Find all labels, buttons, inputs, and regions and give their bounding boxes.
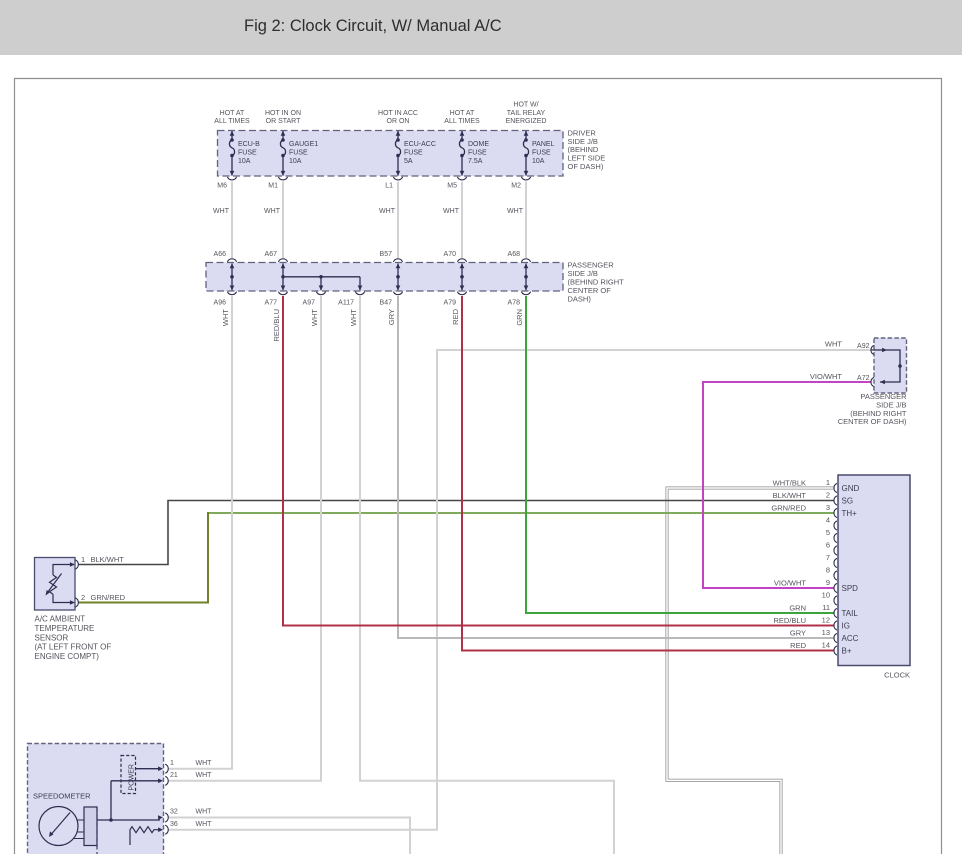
svg-text:RED/BLU: RED/BLU — [272, 309, 281, 342]
svg-text:WHT: WHT — [310, 309, 319, 326]
svg-text:WHT: WHT — [196, 809, 213, 816]
svg-text:GAUGE1: GAUGE1 — [289, 141, 318, 148]
svg-text:RED: RED — [790, 641, 806, 650]
svg-text:8: 8 — [826, 565, 830, 574]
svg-text:GRN: GRN — [789, 603, 806, 612]
svg-text:A92: A92 — [857, 343, 870, 350]
svg-text:TH+: TH+ — [842, 509, 858, 518]
svg-text:OR ON: OR ON — [387, 118, 410, 125]
svg-text:6: 6 — [826, 540, 830, 549]
svg-text:FUSE: FUSE — [532, 150, 551, 157]
svg-text:7.5A: 7.5A — [468, 158, 483, 165]
svg-text:WHT: WHT — [196, 772, 213, 779]
svg-text:TEMPERATURE: TEMPERATURE — [35, 624, 95, 633]
svg-text:13: 13 — [822, 628, 830, 637]
svg-text:ENERGIZED: ENERGIZED — [506, 118, 547, 125]
svg-text:L1: L1 — [385, 183, 393, 190]
svg-text:FUSE: FUSE — [404, 150, 423, 157]
svg-text:HOT W/: HOT W/ — [513, 102, 538, 109]
svg-text:M2: M2 — [511, 183, 521, 190]
svg-text:WHT: WHT — [349, 309, 358, 326]
svg-text:SENSOR: SENSOR — [35, 633, 69, 642]
svg-text:A117: A117 — [338, 299, 354, 306]
svg-text:10A: 10A — [532, 158, 545, 165]
svg-text:WHT: WHT — [196, 821, 213, 828]
svg-text:M5: M5 — [447, 183, 457, 190]
svg-text:ALL TIMES: ALL TIMES — [444, 118, 480, 125]
svg-text:DOME: DOME — [468, 141, 489, 148]
svg-text:11: 11 — [822, 603, 830, 612]
svg-text:BLK/WHT: BLK/WHT — [91, 555, 125, 564]
svg-text:RED: RED — [451, 308, 460, 324]
svg-text:2: 2 — [826, 490, 830, 499]
svg-text:A66: A66 — [214, 251, 227, 258]
svg-text:WHT: WHT — [507, 208, 524, 215]
svg-text:WHT/BLK: WHT/BLK — [773, 478, 806, 487]
svg-text:(AT LEFT FRONT OF: (AT LEFT FRONT OF — [35, 643, 112, 652]
svg-text:1: 1 — [170, 760, 174, 767]
svg-text:ECU-B: ECU-B — [238, 141, 260, 148]
svg-text:RED/BLU: RED/BLU — [773, 616, 806, 625]
svg-text:A68: A68 — [508, 251, 521, 258]
svg-text:12: 12 — [822, 615, 830, 624]
svg-text:HOT IN ON: HOT IN ON — [265, 110, 301, 117]
svg-text:ACC: ACC — [842, 634, 859, 643]
svg-text:FUSE: FUSE — [238, 150, 257, 157]
svg-text:A72: A72 — [857, 375, 870, 382]
svg-text:PANEL: PANEL — [532, 141, 555, 148]
svg-text:CLOCK: CLOCK — [884, 671, 910, 680]
svg-text:GRY: GRY — [790, 628, 806, 637]
svg-text:FUSE: FUSE — [468, 150, 487, 157]
svg-text:14: 14 — [822, 640, 830, 649]
svg-text:SPD: SPD — [842, 584, 859, 593]
svg-text:A97: A97 — [303, 299, 316, 306]
svg-text:A79: A79 — [444, 299, 457, 306]
svg-text:GRN/RED: GRN/RED — [771, 503, 806, 512]
svg-text:A70: A70 — [444, 251, 457, 258]
svg-text:5: 5 — [826, 528, 830, 537]
svg-text:B57: B57 — [380, 251, 393, 258]
svg-text:CENTER OF DASH): CENTER OF DASH) — [838, 417, 907, 426]
svg-text:7: 7 — [826, 553, 830, 562]
svg-text:ENGINE COMPT): ENGINE COMPT) — [35, 652, 100, 661]
svg-text:10A: 10A — [289, 158, 302, 165]
svg-text:WHT: WHT — [825, 340, 842, 349]
svg-text:B+: B+ — [842, 646, 852, 655]
svg-text:WHT: WHT — [443, 208, 460, 215]
svg-text:32: 32 — [170, 809, 178, 816]
svg-text:GRN/RED: GRN/RED — [91, 593, 126, 602]
svg-text:GRN: GRN — [515, 309, 524, 326]
svg-text:9: 9 — [826, 578, 830, 587]
svg-text:GND: GND — [842, 484, 860, 493]
svg-text:VIO/WHT: VIO/WHT — [810, 372, 842, 381]
svg-text:IG: IG — [842, 621, 850, 630]
svg-text:ALL TIMES: ALL TIMES — [214, 118, 250, 125]
svg-text:TAIL RELAY: TAIL RELAY — [507, 110, 546, 117]
svg-text:VIO/WHT: VIO/WHT — [774, 578, 806, 587]
svg-text:1: 1 — [81, 555, 85, 564]
svg-text:4: 4 — [826, 515, 830, 524]
svg-text:21: 21 — [170, 772, 178, 779]
svg-text:B47: B47 — [380, 299, 393, 306]
svg-text:TAIL: TAIL — [842, 609, 859, 618]
svg-text:A/C AMBIENT: A/C AMBIENT — [35, 615, 86, 624]
svg-text:5A: 5A — [404, 158, 413, 165]
svg-text:WHT: WHT — [264, 208, 281, 215]
svg-text:OF DASH): OF DASH) — [568, 162, 604, 171]
svg-text:WHT: WHT — [213, 208, 230, 215]
svg-text:A77: A77 — [265, 299, 278, 306]
svg-text:3: 3 — [826, 503, 830, 512]
svg-text:BLK/WHT: BLK/WHT — [773, 491, 807, 500]
svg-text:10: 10 — [822, 590, 830, 599]
svg-text:WHT: WHT — [221, 309, 230, 326]
svg-text:POWER: POWER — [129, 764, 136, 790]
svg-text:ECU-ACC: ECU-ACC — [404, 141, 436, 148]
svg-text:DASH): DASH) — [568, 294, 592, 303]
svg-text:M1: M1 — [268, 183, 278, 190]
svg-text:OR START: OR START — [266, 118, 301, 125]
svg-text:HOT AT: HOT AT — [450, 110, 475, 117]
svg-text:A96: A96 — [214, 299, 227, 306]
svg-text:HOT AT: HOT AT — [220, 110, 245, 117]
svg-text:A67: A67 — [265, 251, 278, 258]
svg-text:2: 2 — [81, 593, 85, 602]
svg-text:1: 1 — [826, 478, 830, 487]
svg-text:Fig 2: Clock Circuit, W/ Manua: Fig 2: Clock Circuit, W/ Manual A/C — [244, 17, 502, 35]
svg-text:36: 36 — [170, 821, 178, 828]
svg-text:SPEEDOMETER: SPEEDOMETER — [33, 792, 91, 801]
svg-text:GRY: GRY — [387, 309, 396, 325]
svg-text:A78: A78 — [508, 299, 521, 306]
svg-text:10A: 10A — [238, 158, 251, 165]
svg-text:M6: M6 — [217, 183, 227, 190]
svg-text:SG: SG — [842, 496, 854, 505]
svg-text:HOT IN ACC: HOT IN ACC — [378, 110, 418, 117]
svg-text:WHT: WHT — [379, 208, 396, 215]
svg-text:FUSE: FUSE — [289, 150, 308, 157]
svg-text:WHT: WHT — [196, 760, 213, 767]
